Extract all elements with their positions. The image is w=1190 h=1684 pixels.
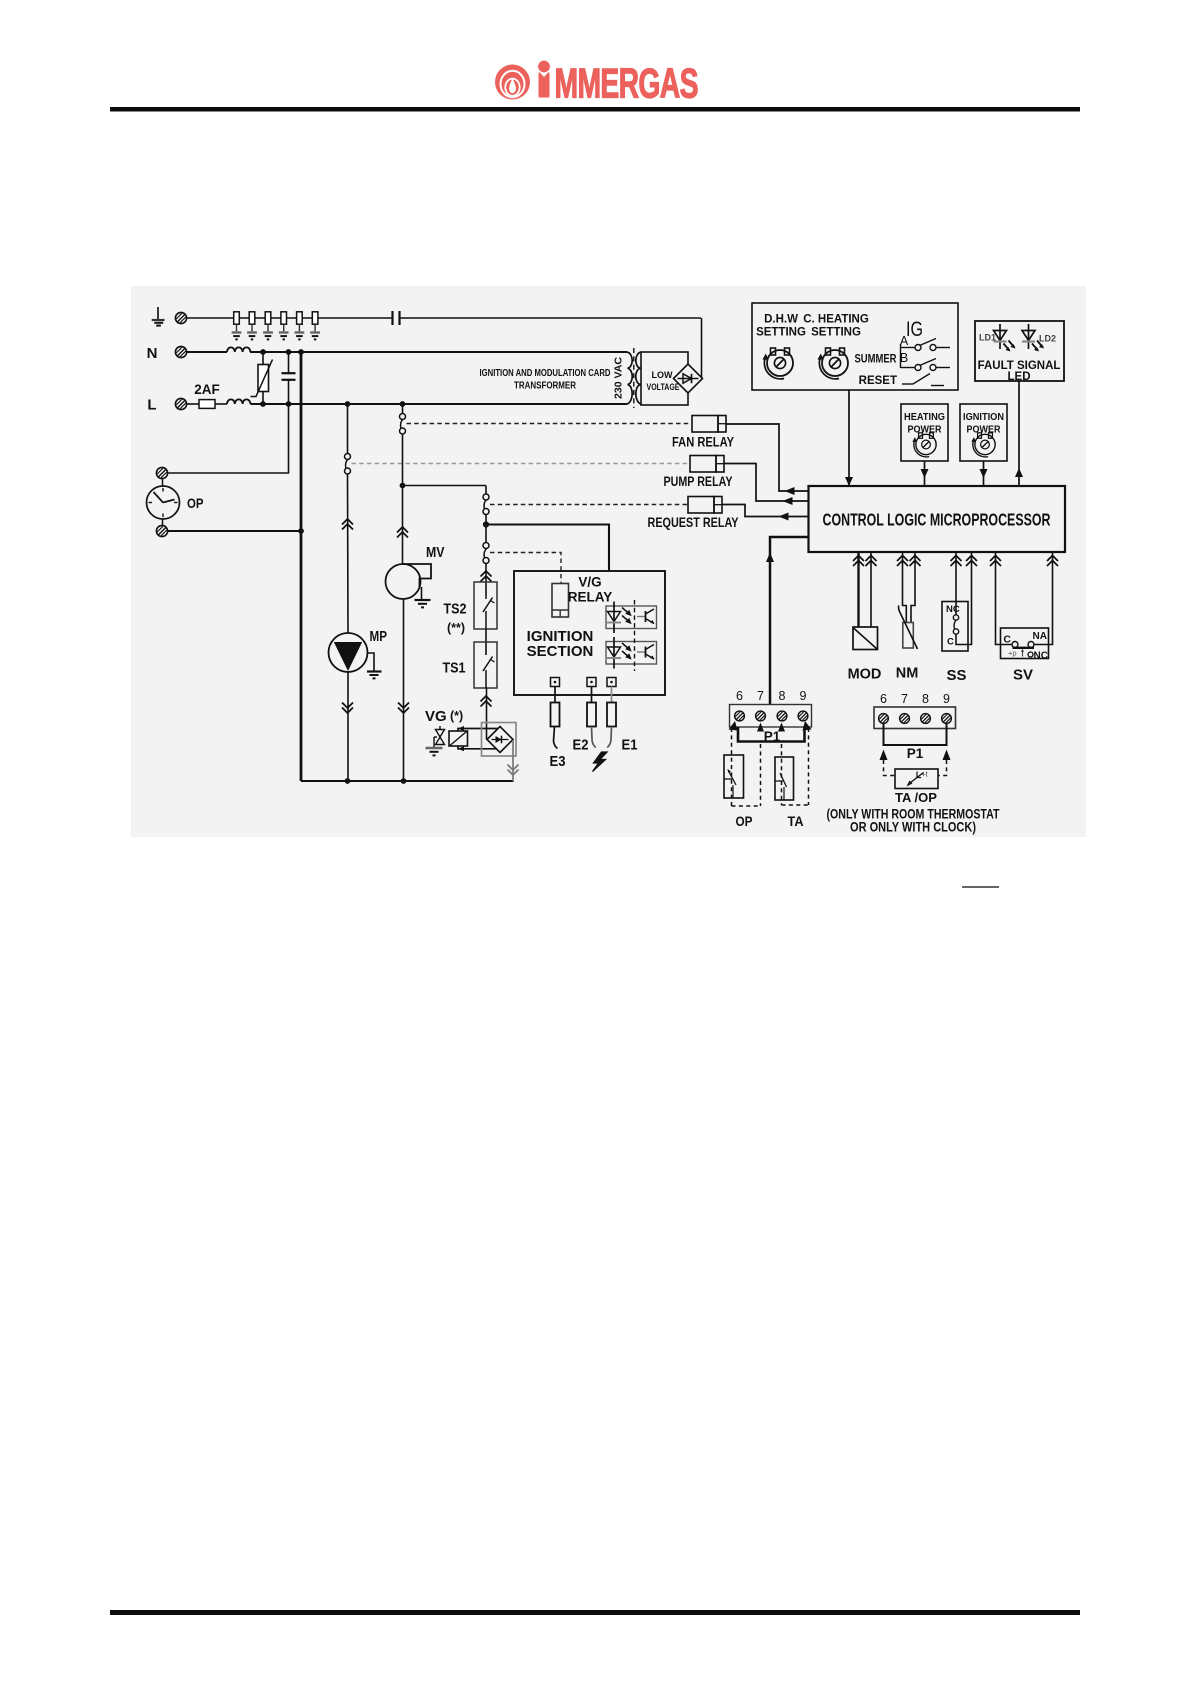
pump relay contact: [345, 454, 351, 475]
svg-text:VOLTAGE: VOLTAGE: [647, 382, 680, 393]
relay V/G: [552, 584, 569, 618]
svg-text:7: 7: [757, 689, 764, 703]
N wire: [187, 351, 228, 353]
svg-text:NM: NM: [896, 666, 919, 682]
wire TS1 to gas valve bridge: [486, 688, 488, 740]
VG relay contact: [483, 543, 489, 564]
microswitch SV: [1001, 628, 1049, 662]
fan ground: [415, 587, 431, 607]
wire contact to fan: [402, 434, 404, 564]
ignition power box: [960, 404, 1007, 461]
fan MV: [386, 564, 432, 599]
svg-text:MOD: MOD: [848, 667, 882, 683]
svg-text:OP: OP: [736, 813, 753, 829]
svg-text:HEATING: HEATING: [904, 411, 945, 423]
svg-text:MP: MP: [370, 628, 388, 645]
wire fan to bus: [403, 599, 405, 781]
wire to TS2: [485, 564, 487, 597]
svg-text:IG: IG: [906, 318, 923, 341]
thermostat/clock contact TA/OP: [895, 769, 938, 789]
optocoupler upper: [606, 602, 657, 634]
low voltage rectifier diode: [674, 364, 703, 393]
transformer primary coil: [627, 352, 632, 404]
microswitch SV wires: [990, 552, 1058, 645]
svg-text:8: 8: [922, 692, 929, 706]
L wire: [215, 403, 227, 405]
svg-text:LD1: LD1: [979, 333, 996, 343]
svg-text:NC: NC: [1034, 651, 1048, 662]
stray mark bottom-right of diagram: [962, 886, 999, 888]
potentiometer heating power: [912, 433, 936, 457]
main neutral drop wire: [300, 352, 303, 781]
fan relay coil: [692, 416, 726, 433]
svg-text:IGNITION: IGNITION: [963, 411, 1004, 423]
valve ground: [426, 737, 443, 755]
wire contact to pump: [347, 474, 350, 633]
svg-text:+t: +t: [922, 772, 928, 779]
wire capacitor node down to clock OP: [167, 404, 289, 473]
bridge output to bus: [512, 740, 514, 781]
wire fan relay to microprocessor: [726, 424, 809, 491]
ignition terminal E1 pad: [607, 678, 616, 703]
request relay coil: [688, 497, 722, 514]
fan relay dashed link: [407, 423, 693, 425]
thermostat TS1: [474, 642, 497, 688]
wire micro to terminal strip: [770, 537, 809, 705]
footer rule: [110, 1610, 1080, 1615]
TA dashed loop: [782, 728, 809, 805]
switch SS: [942, 602, 968, 652]
transformer secondary coil: [636, 352, 641, 404]
wire clock to neutral drop: [167, 530, 301, 532]
gas valve coil: [449, 731, 468, 746]
L line inductor: [227, 399, 250, 404]
wires coil to bridge: [458, 726, 500, 751]
potentiometer ignition power: [971, 433, 995, 457]
svg-text:8: 8: [779, 689, 786, 703]
svg-text:E1: E1: [622, 738, 638, 754]
svg-text:230 VAC: 230 VAC: [613, 357, 625, 399]
spark symbol: [593, 752, 608, 772]
svg-text:SV: SV: [1013, 667, 1033, 684]
wire ignition power to microprocessor: [983, 461, 985, 486]
svg-text:POWER: POWER: [967, 424, 1001, 436]
svg-text:D.H.W: D.H.W: [764, 314, 798, 326]
series capacitor on earth wire: [393, 311, 400, 325]
svg-text:TA /OP: TA /OP: [895, 790, 937, 805]
svg-text:PUMP RELAY: PUMP RELAY: [664, 474, 733, 489]
request relay dashed link: [490, 504, 689, 506]
svg-text:B: B: [900, 351, 908, 365]
VG relay dashed link: [490, 553, 561, 584]
svg-text:7: 7: [901, 692, 908, 706]
svg-text:SETTING: SETTING: [811, 327, 861, 339]
transformer core: [633, 348, 635, 408]
svg-text:(*): (*): [450, 709, 463, 723]
earth input terminal: [175, 312, 186, 323]
ignition terminal E3 pad: [551, 678, 560, 703]
opto core dashed: [634, 600, 636, 671]
svg-text:FAN RELAY: FAN RELAY: [672, 435, 734, 450]
svg-text:SETTING: SETTING: [756, 327, 806, 339]
ignition terminal E2 pad: [587, 678, 596, 703]
svg-text:E2: E2: [573, 738, 589, 754]
P1 jumper loop: [884, 723, 947, 745]
wire down to request contact: [485, 486, 487, 495]
clock OP: [147, 479, 180, 526]
svg-text:9: 9: [943, 692, 950, 706]
optocoupler lower: [606, 637, 657, 669]
modulator MOD wires: [853, 552, 877, 627]
wire request relay to microprocessor: [722, 505, 809, 517]
svg-text:(**): (**): [447, 621, 465, 635]
svg-text:TS2: TS2: [444, 602, 467, 618]
svg-text:MV: MV: [426, 544, 445, 561]
svg-text:CONTROL LOGIC MICROPROCESSOR: CONTROL LOGIC MICROPROCESSOR: [823, 510, 1051, 530]
ignition section box: [514, 571, 665, 695]
wire pump relay to microprocessor: [724, 464, 809, 502]
svg-text:TS1: TS1: [443, 661, 466, 677]
svg-text:OR ONLY WITH CLOCK): OR ONLY WITH CLOCK): [850, 820, 976, 835]
strip body: [874, 707, 956, 729]
wire pump to bus: [347, 672, 349, 781]
sensor NM wires: [897, 552, 921, 623]
varistor: [251, 349, 273, 407]
pump ground: [367, 653, 382, 678]
valve symbol: [434, 726, 445, 745]
svg-text:LOW: LOW: [652, 370, 673, 381]
svg-text:6: 6: [880, 692, 887, 706]
wire heating power to microprocessor: [924, 461, 926, 486]
svg-text:SUMMER: SUMMER: [855, 354, 898, 366]
svg-text:RELAY: RELAY: [568, 590, 613, 605]
X2 capacitor N-L: [282, 349, 296, 407]
node junction: [485, 515, 487, 543]
scan tint over schematic area: [131, 286, 1086, 837]
electrode E3: [551, 703, 560, 749]
svg-text:2AF: 2AF: [194, 382, 220, 397]
svg-text:6: 6: [736, 689, 743, 703]
L input terminal: [175, 398, 186, 409]
svg-text:MMERGAS: MMERGAS: [555, 60, 698, 107]
wire junction to ignition section: [486, 525, 609, 572]
svg-text:IGNITION AND MODULATION CARD: IGNITION AND MODULATION CARD: [480, 368, 611, 379]
modulator MOD: [853, 627, 878, 650]
electrode E1: [607, 703, 616, 748]
IMMERGAS logo icon: [495, 65, 530, 100]
svg-text:SS: SS: [946, 667, 966, 684]
svg-text:VG: VG: [425, 708, 447, 725]
thermostat contact TA: [775, 757, 794, 800]
heating power box: [901, 404, 948, 461]
earth wire: [187, 317, 393, 319]
wire settings to microprocessor: [848, 390, 850, 486]
LED LD1: [994, 324, 1016, 352]
wire LED box to microprocessor: [1018, 381, 1020, 486]
clock OP terminal top: [156, 467, 167, 478]
clock contact OP: [724, 755, 744, 798]
wire to request contact chain: [403, 485, 487, 487]
strip body: [730, 705, 812, 728]
svg-text:REQUEST RELAY: REQUEST RELAY: [648, 515, 739, 530]
header rule: [110, 107, 1080, 112]
svg-text:C: C: [1003, 634, 1011, 646]
OP dashed loop: [732, 728, 761, 806]
request relay contact: [483, 494, 489, 515]
LOW VOLTAGE box: [641, 352, 688, 405]
pump relay dashed link: [352, 463, 691, 465]
valve rectifier bridge: [482, 723, 517, 757]
wire TS2 to TS1: [485, 629, 487, 655]
screws 6..9: [735, 711, 745, 721]
earth symbol top-left: [152, 307, 165, 326]
screws 6..9: [879, 714, 889, 724]
P1 bracket: [738, 727, 805, 742]
switch SS wires: [951, 552, 978, 645]
sensor NM: [899, 606, 918, 650]
svg-text:POWER: POWER: [908, 424, 942, 436]
pump MP: [329, 633, 368, 672]
svg-text:+p: +p: [1008, 649, 1017, 658]
pump relay coil: [690, 456, 724, 473]
TA/OP dashed links: [880, 750, 888, 761]
svg-text:N: N: [147, 345, 158, 362]
svg-text:TA: TA: [788, 813, 804, 829]
electrode E2: [587, 703, 596, 748]
svg-text:L: L: [147, 397, 156, 414]
clock OP terminal bottom: [156, 525, 167, 536]
svg-text:NC: NC: [946, 604, 960, 615]
svg-text:C: C: [947, 637, 954, 648]
svg-text:C. HEATING: C. HEATING: [803, 314, 869, 326]
svg-text:LD2: LD2: [1039, 334, 1056, 344]
N line inductor: [227, 347, 250, 352]
potentiometer C HEATING: [818, 348, 849, 379]
svg-text:V/G: V/G: [578, 575, 601, 590]
wire L to fan contact: [402, 404, 404, 414]
svg-text:NA: NA: [1033, 631, 1047, 642]
LED LD2: [1022, 324, 1044, 352]
svg-text:OP: OP: [187, 495, 204, 511]
bottom bus wire: [301, 780, 514, 782]
svg-text:9: 9: [800, 689, 807, 703]
potentiometer DHW: [763, 348, 794, 379]
wire L to pump contact: [347, 404, 349, 454]
svg-text:TRANSFORMER: TRANSFORMER: [514, 381, 577, 392]
IMMERGAS logo text: [538, 60, 698, 107]
reset switch: [902, 374, 944, 386]
svg-text:SECTION: SECTION: [527, 643, 594, 660]
N input terminal: [175, 346, 186, 357]
thermostat TS2: [474, 582, 497, 629]
fan relay contact: [400, 414, 406, 435]
svg-text:RESET: RESET: [859, 375, 897, 387]
fuse 2AF: [187, 403, 200, 405]
svg-text:E3: E3: [550, 754, 566, 770]
six suppression capacitors to ground: [232, 312, 320, 340]
svg-text:P1: P1: [907, 746, 924, 761]
